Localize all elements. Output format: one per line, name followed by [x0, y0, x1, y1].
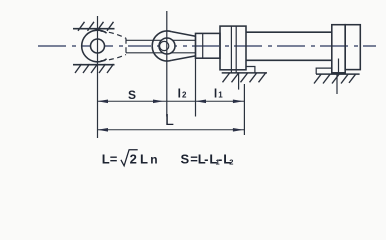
arrow L left — [98, 128, 109, 132]
svg-text:l2: l2 — [178, 87, 187, 101]
left support top hatch line — [73, 28, 115, 30]
rod-end bearing ball — [160, 41, 169, 50]
radical sign — [121, 150, 138, 166]
arrow S left — [98, 99, 109, 103]
extension line D — [243, 84, 245, 135]
cylinder tube top — [246, 31, 332, 33]
head ground line — [222, 72, 267, 74]
clevis pin hole — [91, 39, 105, 53]
head cap inner line 1 — [230, 26, 232, 73]
svg-text:2: 2 — [130, 151, 137, 166]
gland block — [196, 33, 221, 58]
cap end block — [345, 25, 360, 70]
svg-text:Ln: Ln — [140, 151, 158, 166]
svg-text:l1: l1 — [214, 87, 223, 101]
dimension line L — [98, 129, 245, 131]
extension line C — [195, 36, 197, 116]
svg-text:S=L-L1-L2: S=L-L1-L2 — [181, 151, 234, 166]
head cap inner line 2 — [235, 26, 237, 73]
svg-text:L: L — [165, 112, 174, 129]
cap support lug stem — [337, 59, 339, 95]
arrow L right — [233, 128, 244, 132]
cap ground line — [316, 73, 360, 75]
phantom rod-end end edge (dashed) — [125, 38, 127, 55]
head foot pad — [246, 67, 255, 73]
centerline axis — [38, 45, 376, 47]
svg-text:S: S — [128, 88, 136, 102]
head cap block — [220, 26, 246, 70]
cap flange block — [332, 25, 345, 73]
arrow l1 left — [196, 99, 207, 103]
rod-end taper top — [171, 32, 195, 37]
rod-end taper bottom — [171, 56, 195, 61]
extension line A — [97, 16, 99, 138]
head foot stem — [238, 73, 240, 90]
left support bottom hatch ticks — [75, 64, 114, 73]
arrow l1 right — [233, 99, 244, 103]
cap ground hatch ticks — [314, 74, 356, 83]
rod-end eye outer arc — [152, 31, 171, 61]
left support bottom hatch line — [73, 64, 115, 66]
svg-text:L=: L= — [102, 151, 118, 166]
phantom rod-end taper bottom (dashed) — [101, 55, 127, 61]
dimension line S l2 l1 — [98, 100, 245, 102]
clevis eye outer arc — [82, 30, 107, 62]
cap foot pad — [316, 68, 332, 74]
phantom rod-end taper top (dashed) — [101, 31, 127, 38]
left support top hatch ticks — [78, 22, 114, 31]
rod phantom line top — [126, 39, 196, 41]
rod phantom line bottom — [126, 52, 196, 54]
cylinder tube bottom — [246, 59, 332, 61]
head ground hatch ticks — [223, 73, 266, 82]
gland divider — [202, 33, 204, 58]
arrow S right — [153, 99, 164, 103]
rod-end pin hole — [159, 38, 175, 54]
extension line B — [166, 11, 168, 117]
